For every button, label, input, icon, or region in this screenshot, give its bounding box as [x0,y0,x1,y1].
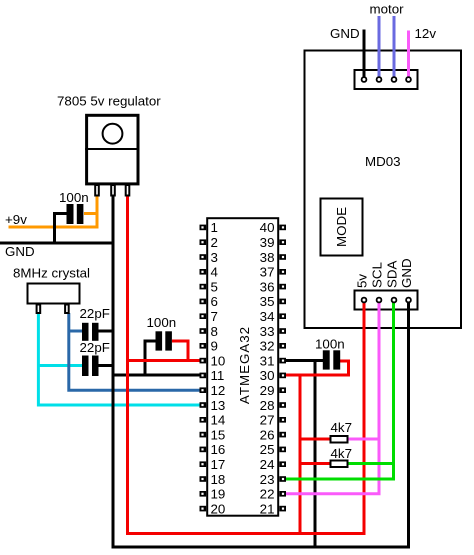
U2 pin 36 [260,279,286,294]
MD03 top connector box [355,70,418,89]
MD03 bottom connector box [355,291,418,310]
U2 pin 18 [200,472,226,487]
wire motor output 1, blue [378,16,381,80]
capacitor C3 22pF left plate [82,356,89,377]
svg-text:27: 27 [260,413,275,428]
U2 pin 30 [260,368,286,383]
svg-text:22pF: 22pF [80,306,110,321]
crystal X1 body [28,284,80,304]
svg-text:6: 6 [211,294,218,309]
wire SCL: MD03 pin down to pin 22, magenta [284,300,379,494]
svg-text:8: 8 [211,324,218,339]
U2 pin 2 [200,235,218,250]
svg-text:15: 15 [211,427,226,442]
U2 pin 40 [260,220,286,235]
svg-text:1: 1 [211,220,218,235]
svg-text:+9v: +9v [5,212,27,227]
wire 22pF C2 right plate to ground, black [98,330,114,333]
svg-text:GND: GND [330,26,360,41]
regulator U1 pin 2 (gnd) [111,185,115,196]
svg-text:SCL: SCL [370,262,385,288]
svg-text:100n: 100n [147,315,177,330]
svg-text:32: 32 [260,339,275,354]
svg-text:19: 19 [211,487,226,502]
svg-text:21: 21 [260,501,275,516]
wire C1 right plate to +9v, orange [84,212,97,215]
U2 pin 22 [260,487,286,502]
regulator U1 pin 3 (out) [126,185,130,196]
U2 pin 13 [200,398,226,413]
U2 pin 9 [200,339,218,354]
svg-text:12v: 12v [415,26,437,41]
svg-text:18: 18 [211,472,226,487]
U2 pin 10 [200,353,226,368]
svg-text:23: 23 [260,472,275,487]
svg-text:11: 11 [211,368,225,383]
wire GND rail left, black [0,242,114,245]
wire 5v to resistor R2, red [300,462,331,465]
capacitor C5 100n right plate [333,350,340,369]
U2 pin 1 [200,220,218,235]
U2 pin 34 [260,309,286,324]
regulator U1 body [87,115,138,184]
wire cyan branch to 22pF C3 left plate [38,364,84,367]
wire ground net: regulator pin2 down, bottom rail, up to MD03 GND pin, black [113,196,409,547]
svg-text:SDA: SDA [385,260,400,288]
U2 pin 32 [260,339,286,354]
svg-text:29: 29 [260,383,275,398]
MD03 motor driver board outline [305,51,462,329]
svg-text:8MHz crystal: 8MHz crystal [13,266,90,281]
wire MD03 GND stub to top, black [363,30,366,81]
svg-text:31: 31 [260,353,275,368]
U2 pin 5 [200,279,218,294]
svg-text:4k7: 4k7 [331,446,353,461]
wire 5v to pin 10 (VCC), red [128,359,205,362]
resistor R2 4k7 body [331,461,348,468]
svg-text:14: 14 [211,413,226,428]
svg-text:22pF: 22pF [80,340,110,355]
svg-text:13: 13 [211,398,226,413]
wire blue branch to 22pF C2 left plate [69,330,84,333]
wire pin 31 (AGND) to 100n C5 left plate, black [284,359,324,362]
wire pin 31 AGND down to ground rail, black [314,361,317,548]
svg-text:100n: 100n [59,190,89,205]
U2 pin 17 [200,457,226,472]
svg-text:12: 12 [211,383,226,398]
U2 pin 21 [260,501,286,516]
U2 pin 24 [260,457,286,472]
svg-text:36: 36 [260,279,275,294]
svg-text:MODE: MODE [334,207,349,247]
wire +9v input, orange [9,196,98,227]
U2 pin 19 [200,487,226,502]
svg-text:9: 9 [211,339,218,354]
svg-text:MD03: MD03 [365,154,401,169]
U2 pin 39 [260,235,286,250]
svg-text:7: 7 [211,309,218,324]
MD03 bottom connector pin 4 (GND) [406,298,411,303]
wire R2 to SDA line, green [348,462,394,465]
svg-text:GND: GND [399,258,414,288]
capacitor C5 100n left plate [323,350,330,369]
ATMEGA32 U2 body [207,218,278,516]
U2 pin 29 [260,383,286,398]
capacitor C4 100n left plate [156,331,163,350]
svg-text:100n: 100n [315,337,345,352]
U2 pin 37 [260,265,286,280]
svg-text:7805 5v regulator: 7805 5v regulator [57,94,161,109]
wire R1 to SCL line, magenta [348,438,380,441]
svg-text:3: 3 [211,250,218,265]
svg-text:16: 16 [211,442,226,457]
wire crystal right leg to pin 12 (XTAL2), blue [69,313,204,390]
svg-text:39: 39 [260,235,275,250]
svg-text:10: 10 [211,353,226,368]
svg-text:34: 34 [260,309,275,324]
svg-text:35: 35 [260,294,275,309]
wire crystal left leg to pin 13 (XTAL1), cyan [38,313,204,405]
U2 pin 14 [200,413,226,428]
U2 pin 6 [200,294,218,309]
capacitor C2 22pF right plate [92,323,99,341]
U2 pin 16 [200,442,226,457]
MD03 bottom connector pin 2 (SCL) [377,298,382,303]
wire pin 30 AVCC down to 5v rail, red [299,375,302,534]
svg-text:38: 38 [260,250,275,265]
svg-text:37: 37 [260,265,275,280]
U2 pin 11 [200,368,225,383]
wire 5v to resistor R1, red [300,438,331,441]
MD03 bottom connector pin 3 (SDA) [392,298,397,303]
svg-text:ATMEGA32: ATMEGA32 [237,326,252,404]
svg-text:5: 5 [211,279,218,294]
U2 pin 8 [200,324,218,339]
wire pin 30 (AVCC) to 100n C5 right plate, red [284,361,349,375]
U2 pin 28 [260,398,286,413]
svg-text:4: 4 [211,265,219,280]
svg-text:4k7: 4k7 [331,420,353,435]
capacitor C2 22pF left plate [82,323,89,341]
wire motor output 2, blue [393,16,396,80]
regulator U1 pin 1 (in) [95,185,99,196]
regulator U1 tab line [85,148,139,150]
MD03 bottom connector pin 1 (5v) [362,298,367,303]
U2 pin 38 [260,250,286,265]
svg-text:24: 24 [260,457,275,472]
svg-text:33: 33 [260,324,275,339]
wire SDA: MD03 pin down to pin 23, green [284,300,394,479]
wire 5v net: regulator pin3 down, bottom rail, up to MD03 5v pin, red [128,196,365,534]
U2 pin 7 [200,309,218,324]
MODE connector box [321,199,363,256]
wire C1 left plate to ground, black [55,214,68,244]
svg-text:40: 40 [260,220,275,235]
svg-text:2: 2 [211,235,218,250]
svg-text:5v: 5v [355,274,370,288]
wire 12v input stub, magenta [407,31,410,81]
U2 pin 31 [260,353,286,368]
wire 22pF C3 right plate to ground, black [98,364,114,367]
U2 pin 23 [260,472,286,487]
svg-text:30: 30 [260,368,275,383]
resistor R1 4k7 body [331,436,348,443]
U2 pin 33 [260,324,286,339]
U2 pin 27 [260,413,286,428]
wire 100n C4 right plate to pin 10 wire, red [172,341,188,361]
svg-text:25: 25 [260,442,275,457]
capacitor C4 100n right plate [165,331,172,350]
svg-text:17: 17 [211,457,226,472]
MD03 top connector pin 2 (motor A) [377,77,382,82]
U2 pin 35 [260,294,286,309]
U2 pin 12 [200,383,226,398]
svg-text:20: 20 [211,501,226,516]
U2 pin 26 [260,427,286,442]
wire 100n C4 left plate to pin 11 wire, black [145,341,156,376]
U2 pin 20 [200,501,226,516]
MD03 top connector pin 3 (motor B) [392,77,397,82]
svg-text:motor: motor [370,1,405,16]
svg-text:28: 28 [260,398,275,413]
regulator U1 mounting hole [103,124,123,144]
U2 pin 25 [260,442,286,457]
MD03 top connector pin 1 (GND) [362,77,367,82]
capacitor C1 100n left plate [67,204,74,224]
svg-text:22: 22 [260,487,275,502]
U2 pin 4 [200,265,219,280]
capacitor C1 100n right plate [77,204,84,224]
svg-text:26: 26 [260,427,275,442]
U2 pin 3 [200,250,218,265]
capacitor C3 22pF right plate [92,356,99,377]
crystal X1 right leg [65,305,69,314]
wire ground to pin 11 (GND), black [113,374,204,377]
crystal X1 left leg [37,305,41,314]
svg-text:GND: GND [5,244,35,259]
MD03 top connector pin 4 (12v) [406,77,411,82]
U2 pin 15 [200,427,226,442]
